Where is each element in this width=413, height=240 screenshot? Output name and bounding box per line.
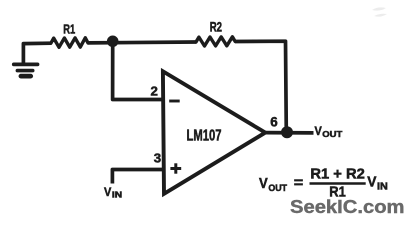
wire ground to R1 xyxy=(23,43,51,63)
equation VOUT = (R1+R2)/R1 x VIN xyxy=(259,167,388,201)
label VIN xyxy=(104,185,122,199)
svg-text:R1: R1 xyxy=(63,22,75,37)
node junction J1 xyxy=(107,36,119,48)
svg-text:R1 + R2: R1 + R2 xyxy=(310,167,364,183)
svg-text:OUT: OUT xyxy=(322,129,343,139)
plus input symbol xyxy=(170,163,181,173)
svg-text:OUT: OUT xyxy=(268,183,287,193)
ground xyxy=(14,64,38,76)
minus input symbol xyxy=(169,100,180,103)
node VOUT xyxy=(281,126,293,138)
svg-text:LM107: LM107 xyxy=(187,127,222,144)
resistor R1 xyxy=(51,38,88,48)
svg-text:V: V xyxy=(367,174,376,191)
wire junction to pin 2 xyxy=(113,42,163,100)
svg-text:V: V xyxy=(104,185,112,199)
wire VIN stub to pin 3 xyxy=(112,170,163,184)
svg-text:IN: IN xyxy=(377,181,388,192)
svg-text:R2: R2 xyxy=(210,19,222,34)
svg-text:3: 3 xyxy=(154,150,161,165)
wire R2 to right corner and down to output node xyxy=(235,41,286,132)
wire R1 to R2 xyxy=(88,40,196,45)
svg-text:IN: IN xyxy=(112,190,122,199)
svg-text:V: V xyxy=(315,124,323,138)
label VOUT xyxy=(315,124,344,139)
svg-text:V: V xyxy=(259,176,268,192)
svg-text:=: = xyxy=(294,175,304,192)
resistor R2 xyxy=(196,37,235,46)
svg-text:SeekIC.com: SeekIC.com xyxy=(290,197,405,217)
op-amp U1 LM107 xyxy=(163,71,265,194)
svg-text:2: 2 xyxy=(151,84,158,99)
svg-text:6: 6 xyxy=(270,115,277,130)
wire output xyxy=(265,131,313,135)
